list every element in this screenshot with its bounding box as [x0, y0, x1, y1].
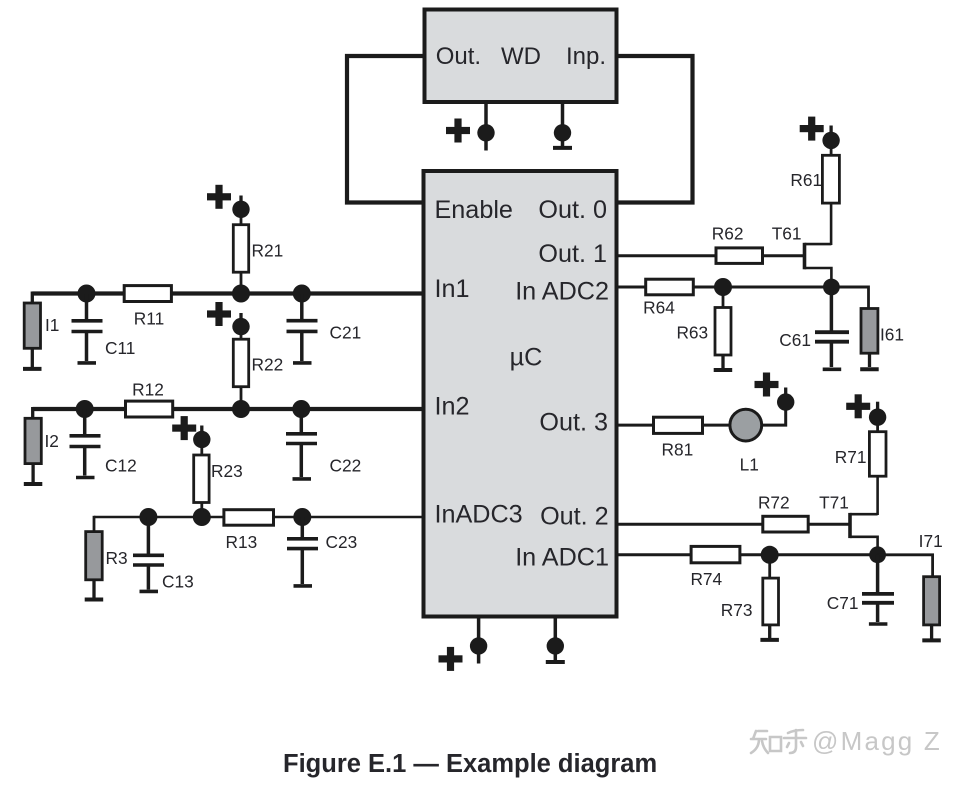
svg-text:I71: I71: [919, 531, 943, 551]
svg-text:@Magg Z: @Magg Z: [812, 726, 942, 756]
svg-text:C13: C13: [162, 571, 194, 591]
wire WD supply stub: [484, 102, 488, 125]
node In2/C12: [76, 400, 94, 418]
svg-text:C21: C21: [330, 323, 362, 343]
node ADC1/R73: [761, 546, 779, 564]
wire µC ground stub: [554, 617, 558, 639]
wire WD ground stub: [561, 102, 565, 125]
wire In ADC2 net: [618, 286, 869, 289]
svg-text:L1: L1: [740, 455, 759, 475]
watchdog box WD: [425, 10, 617, 103]
wire node to I71: [878, 555, 933, 578]
resistor R81: [654, 417, 703, 433]
supply node under WD: [477, 124, 494, 141]
wire R62 to T61 base: [763, 254, 805, 257]
microcontroller box µC: [424, 171, 617, 617]
svg-text:I1: I1: [45, 315, 59, 335]
svg-text:C22: C22: [330, 456, 362, 476]
resistor R61: [830, 203, 833, 245]
resistor R11: [124, 286, 171, 302]
resistor R72: [763, 516, 808, 532]
plus symbol R71 supply: [846, 394, 870, 418]
svg-text:In ADC2: In ADC2: [515, 278, 609, 306]
resistor R12: [126, 401, 173, 417]
resistor R21: [240, 272, 243, 287]
node ADC2/R63: [714, 278, 732, 296]
watermark 知乎 @Magg Z: [751, 730, 806, 753]
svg-text:R63: R63: [676, 323, 708, 343]
node ADC2/T61 emitter/C61: [823, 279, 840, 296]
supply node R61: [822, 132, 839, 149]
svg-text:R73: R73: [721, 600, 753, 620]
capacitor C13: [147, 517, 151, 554]
svg-text:R21: R21: [252, 241, 284, 261]
supply node L1: [777, 393, 794, 410]
svg-text:Out. 2: Out. 2: [540, 502, 609, 530]
supply node R21: [232, 201, 249, 218]
svg-text:T71: T71: [819, 493, 849, 513]
svg-text:Out. 0: Out. 0: [538, 196, 607, 224]
wire R72 to T71 base: [808, 523, 850, 526]
node In1/C11: [78, 285, 96, 303]
svg-text:WD: WD: [501, 43, 541, 70]
svg-text:Out. 1: Out. 1: [538, 240, 607, 268]
capacitor C11: [85, 294, 89, 320]
svg-text:R23: R23: [211, 461, 243, 481]
wire Out. 0 loop (µC Out. 0 to WD Inp.): [616, 56, 693, 203]
plus symbol WD supply: [446, 119, 470, 143]
supply node R23: [193, 431, 210, 448]
svg-text:µC: µC: [510, 344, 543, 372]
svg-text:Enable: Enable: [435, 196, 513, 224]
svg-text:R74: R74: [690, 569, 722, 589]
svg-text:T61: T61: [772, 224, 802, 244]
svg-text:R71: R71: [835, 447, 867, 467]
capacitor C12: [83, 409, 87, 434]
wire In ADC1 net: [618, 553, 878, 556]
svg-text:In1: In1: [435, 275, 470, 303]
node In2/R22: [232, 400, 250, 418]
svg-text:In2: In2: [435, 392, 470, 420]
resistor R23: [200, 503, 203, 512]
node InADC3/C23: [293, 508, 311, 526]
resistor R62: [716, 248, 763, 264]
wire Out. 3 net: [618, 424, 654, 427]
plus symbol R61 supply: [800, 117, 824, 141]
svg-text:I2: I2: [45, 431, 59, 451]
load I61: [861, 309, 878, 354]
capacitor C21: [300, 294, 304, 320]
supply node R22: [232, 318, 249, 335]
plus symbol R23 supply: [172, 416, 196, 440]
wire µC supply stub: [477, 617, 481, 639]
resistor R13: [224, 510, 274, 526]
wire R81 to L1: [703, 424, 732, 427]
svg-text:R11: R11: [134, 309, 164, 329]
plus symbol L1 supply: [755, 373, 779, 397]
transistor T71: [850, 513, 878, 548]
svg-text:R13: R13: [226, 532, 258, 552]
svg-text:C71: C71: [827, 593, 859, 613]
sensor I2: [25, 418, 41, 463]
svg-text:R72: R72: [758, 493, 790, 513]
svg-text:R81: R81: [662, 440, 694, 460]
supply node R71: [869, 409, 886, 426]
wire Out. 1 net: [618, 254, 716, 257]
svg-text:Out.: Out.: [436, 43, 481, 70]
sensor I1: [24, 303, 40, 348]
wire Enable loop (WD Out. to µC Enable): [347, 56, 425, 203]
resistor R74: [691, 546, 740, 562]
capacitor C61: [830, 287, 834, 331]
wire In2 net: [33, 407, 422, 411]
node InADC3/C13: [139, 508, 157, 526]
svg-text:C61: C61: [779, 330, 811, 350]
load I71: [924, 577, 940, 625]
plus symbol µC supply: [439, 647, 463, 671]
resistor R73: [768, 561, 771, 579]
transistor T61: [805, 243, 832, 280]
wire L1 to supply: [762, 411, 786, 426]
wire InADC3 net: [94, 516, 422, 519]
svg-text:R12: R12: [132, 380, 164, 400]
svg-text:Figure E.1 — Example diagram: Figure E.1 — Example diagram: [283, 750, 657, 778]
ground node under WD: [554, 124, 571, 141]
node InADC3/R23: [193, 508, 211, 526]
svg-text:R22: R22: [252, 355, 284, 375]
node In1/C21: [293, 285, 311, 303]
svg-text:In ADC1: In ADC1: [515, 544, 609, 572]
svg-text:Inp.: Inp.: [566, 43, 606, 70]
svg-text:R62: R62: [712, 224, 744, 244]
resistor R63: [722, 293, 725, 309]
svg-text:C12: C12: [105, 456, 137, 476]
svg-text:InADC3: InADC3: [435, 501, 523, 529]
wire In1 net: [32, 291, 422, 295]
svg-text:R64: R64: [643, 298, 675, 318]
resistor R3: [86, 532, 103, 580]
svg-text:C23: C23: [326, 532, 358, 552]
node In1/R21: [232, 285, 250, 303]
plus symbol R21 supply: [207, 185, 231, 209]
svg-text:C11: C11: [105, 338, 135, 358]
node In2/C22: [292, 400, 310, 418]
resistor R22: [240, 387, 243, 402]
resistor R71: [876, 476, 879, 515]
capacitor C71: [876, 555, 880, 592]
svg-text:I61: I61: [880, 325, 904, 345]
ground node under µC: [547, 637, 564, 654]
plus symbol R22 supply: [207, 302, 231, 326]
capacitor C22: [300, 409, 304, 432]
supply node under µC: [470, 637, 487, 654]
svg-text:Out. 3: Out. 3: [539, 409, 608, 437]
svg-text:R3: R3: [106, 548, 128, 568]
node ADC1/T71 emitter/C71: [869, 546, 886, 563]
lamp L1: [730, 409, 762, 441]
resistor R64: [646, 279, 694, 295]
capacitor C23: [301, 517, 305, 537]
wire Out. 2 net: [618, 523, 763, 526]
svg-text:R61: R61: [790, 170, 822, 190]
